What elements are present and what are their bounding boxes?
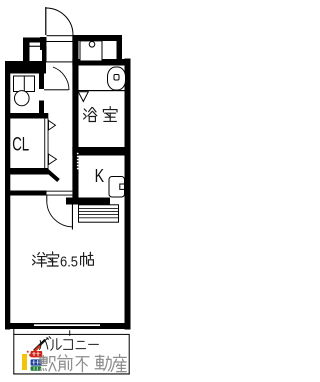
- balcony tick mark: [68, 330, 71, 336]
- wall left (full height): [5, 61, 10, 330]
- CL door flag triangle lower: [49, 154, 57, 165]
- glyph 室: [109, 107, 111, 109]
- CL door track line 1: [43, 119, 46, 172]
- bedroom door jamb stub: [46, 196, 47, 203]
- glyph 帖: [80, 256, 82, 264]
- glyph 駅: [40, 357, 47, 363]
- wall kitchen bottom bar: [66, 198, 110, 205]
- genkan step line: [44, 61, 72, 62]
- glyph 動: [95, 355, 104, 357]
- glyph 浴: [84, 109, 86, 111]
- bath top line: [79, 90, 125, 91]
- glyph バ: [40, 341, 41, 350]
- entrance left jamb block: [40, 37, 46, 50]
- entrance door leaf: [45, 7, 46, 35]
- washing machine oval: [108, 67, 126, 90]
- bedroom door swing arc: [47, 202, 73, 227]
- bedroom door frame lower line: [47, 194, 73, 197]
- logo red block: [31, 351, 43, 357]
- label bath 浴室 (hand-drawn glyphs): [84, 107, 117, 122]
- wall bedroom top: [5, 191, 47, 196]
- svg-text:K: K: [95, 166, 105, 186]
- label balcony バルコニー (hand-drawn katakana): [40, 337, 99, 351]
- glyph ル: [51, 340, 53, 350]
- toilet bowl: [14, 91, 29, 106]
- toilet tank: [14, 76, 35, 92]
- logo black swoosh: [34, 340, 45, 351]
- wall toilet band (top of toilet room): [7, 61, 47, 74]
- toilet tank divider: [23, 76, 25, 92]
- glyph ー: [89, 343, 99, 345]
- glyph 不: [76, 356, 89, 358]
- kitchen counter hatched block: [79, 205, 119, 222]
- CL door flag triangle upper: [49, 121, 56, 131]
- washing machine inner square: [114, 75, 119, 81]
- wall right (full height): [125, 59, 131, 330]
- svg-text:CL: CL: [12, 134, 29, 156]
- wall main central vertical (hall/bath/kitchen divider): [72, 35, 78, 198]
- wall bath bottom: [72, 147, 130, 156]
- glyph コ: [64, 340, 73, 350]
- glyph 前: [59, 355, 60, 357]
- glyph 室: [52, 252, 54, 254]
- wall toilet right lower: [39, 101, 44, 115]
- glyph 産: [119, 354, 121, 356]
- logo blue block: [31, 359, 42, 365]
- kitchen sink unit: [109, 177, 125, 198]
- washbasin faucet circle: [89, 42, 95, 48]
- glyph 洋: [33, 255, 35, 257]
- balcony top edge: [13, 334, 129, 335]
- wall toilet right upper: [39, 72, 44, 89]
- balcony left edge: [13, 329, 14, 375]
- shoe cabinet top line: [30, 46, 43, 47]
- balcony bottom edge: [13, 373, 129, 374]
- CL door track line 2: [47, 119, 50, 172]
- wall washroom bar (below washbasin): [72, 59, 130, 66]
- watermark logo colored mark: [22, 338, 48, 371]
- bedroom door leaf: [72, 205, 73, 230]
- wall top-right (entry to corner notch): [72, 35, 122, 41]
- logo green block: [31, 366, 42, 371]
- entrance door swing arc: [46, 8, 73, 35]
- balcony right edge: [129, 334, 130, 375]
- kitchen faucet tab: [120, 184, 125, 189]
- glyph ニ: [78, 340, 85, 342]
- toilet door swing arc: [53, 67, 69, 90]
- shoe cabinet right pier: [42, 46, 47, 62]
- wall wedge diagonal at CL corner: [47, 171, 59, 181]
- logo yellow bar: [22, 354, 27, 370]
- label bedroom 洋室6.5帖 (hand-drawn glyphs + numerals): [33, 252, 94, 267]
- svg-text:6.5: 6.5: [60, 255, 78, 271]
- wall top-left (above shoe cabinet): [23, 38, 47, 43]
- watermark text 駅前不動産 (hand-drawn gray glyphs): [40, 354, 126, 371]
- wall bedroom bottom: [5, 323, 131, 329]
- toilet door leaf line: [44, 89, 69, 90]
- bedroom door frame upper line: [47, 190, 73, 193]
- bath door V mark: [78, 92, 88, 102]
- wall dashes (kitchen wall edge): [77, 153, 79, 170]
- logo red dot: [27, 351, 29, 353]
- wall CL top: [5, 113, 48, 119]
- entrance sill lower line: [47, 41, 73, 42]
- wall notch vertical (top-right corner step): [117, 41, 123, 59]
- window slit in bottom wall: [34, 324, 100, 326]
- wall CL bottom: [5, 168, 49, 175]
- washbasin counter square: [80, 41, 102, 61]
- logo red swoosh: [30, 346, 40, 356]
- entrance sill upper line: [47, 35, 73, 36]
- wall top-left vertical: [23, 38, 30, 73]
